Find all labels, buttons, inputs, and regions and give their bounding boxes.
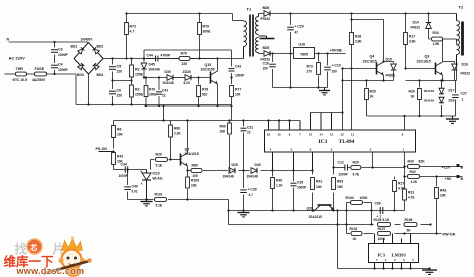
svg-text:4.7E: 4.7E — [353, 173, 360, 177]
regulator U16 7805 — [294, 43, 315, 59]
diode D16 — [452, 63, 471, 76]
junction dots mid bus — [162, 111, 343, 121]
wire Q3 base row — [406, 68, 436, 70]
svg-text:FR302: FR302 — [386, 74, 396, 78]
wire C5 C6 midpoint link — [113, 80, 132, 82]
label +12V feed — [442, 164, 464, 170]
svg-text:1K: 1K — [353, 237, 358, 241]
wire R63 column — [333, 152, 335, 211]
resistor R20 5.1E — [156, 153, 168, 168]
fuse FUSE — [32, 67, 47, 82]
wire Q15 collector — [217, 59, 219, 72]
wire pin12 rail — [342, 69, 344, 131]
svg-text:C42: C42 — [235, 65, 241, 69]
svg-text:10K: 10K — [337, 185, 344, 189]
junction dots AC column — [53, 41, 55, 75]
svg-text:PW-OK: PW-OK — [443, 233, 456, 237]
svg-text:1000P: 1000P — [235, 74, 245, 78]
junction dots bus2 — [336, 223, 431, 225]
svg-text:WL431: WL431 — [153, 177, 164, 181]
svg-text:A: A — [141, 182, 143, 186]
svg-text:1K: 1K — [370, 95, 375, 99]
diode D14 — [411, 21, 432, 30]
label AC 220V — [9, 56, 26, 61]
wire R40 column — [272, 171, 274, 211]
resistor R20 1K — [365, 89, 376, 100]
resistor R33 — [408, 160, 426, 169]
junction dots cluster bus — [145, 105, 219, 107]
diode BD4 — [93, 63, 104, 77]
junction dot bridge — [87, 103, 89, 105]
svg-text:R60: R60 — [174, 127, 180, 131]
svg-text:R40: R40 — [276, 179, 282, 183]
resistor R29 — [351, 161, 361, 177]
wire Q4 collector rail — [352, 20, 384, 62]
diode D15 — [386, 58, 397, 78]
svg-text:BD5: BD5 — [263, 46, 270, 50]
svg-text:PS-ON: PS-ON — [96, 147, 108, 151]
svg-text:1.1K: 1.1K — [276, 184, 283, 188]
svg-text:C27: C27 — [461, 92, 467, 96]
svg-text:C31: C31 — [247, 126, 253, 130]
wire E2 row — [406, 80, 457, 82]
wire D17 D18 column — [441, 81, 443, 117]
svg-text:R76: R76 — [203, 25, 210, 29]
svg-text:100: 100 — [263, 67, 269, 71]
svg-text:FR102: FR102 — [411, 26, 421, 30]
svg-text:R20: R20 — [370, 90, 376, 94]
svg-text:FR102: FR102 — [461, 72, 471, 76]
node N label — [7, 38, 10, 42]
wire HV bus — [113, 58, 244, 60]
label PS-ON — [96, 147, 114, 152]
resistor R1 — [130, 65, 144, 77]
svg-text:2SC1815: 2SC1815 — [363, 60, 377, 64]
wire PW bus2 — [229, 224, 431, 226]
transformer T1 secondary winding lower — [256, 38, 259, 54]
resistor R77 — [230, 86, 242, 97]
svg-text:R2: R2 — [135, 88, 140, 92]
junction dots D row — [228, 169, 294, 171]
svg-text:R90: R90 — [220, 125, 226, 129]
junction dots driver bottoms — [403, 67, 443, 117]
svg-text:C12: C12 — [338, 161, 344, 165]
svg-text:+12V: +12V — [442, 166, 451, 170]
IC3 bottom pin stubs — [375, 263, 411, 269]
svg-text:B: B — [461, 166, 464, 170]
svg-text:R30: R30 — [409, 90, 415, 94]
svg-text:3.9K: 3.9K — [355, 40, 362, 44]
wire M1 row — [367, 115, 456, 117]
svg-text:FUSE: FUSE — [35, 67, 45, 71]
wire bridge minus riser — [88, 74, 90, 105]
wire R20a row — [151, 160, 181, 170]
svg-text:Q20: Q20 — [307, 207, 314, 211]
wire Q4 emitter — [383, 75, 385, 81]
junction dot R60 base — [169, 158, 171, 160]
wire IC3 left loop — [337, 211, 339, 269]
svg-text:R42: R42 — [117, 155, 123, 159]
capacitor C60 electrolytic — [375, 202, 383, 219]
svg-text:C6: C6 — [117, 89, 122, 93]
wire D45 column — [143, 50, 145, 78]
resistor R6 — [112, 126, 124, 138]
resistor R75 — [197, 86, 209, 97]
junction dot emitter row — [186, 169, 188, 200]
capacitor C3 — [51, 48, 69, 58]
svg-text:Q15: Q15 — [205, 63, 212, 67]
svg-text:C5: C5 — [117, 65, 122, 69]
ground driver — [446, 116, 459, 123]
diode BD6 — [261, 6, 271, 21]
wire R1 R2 column — [131, 59, 133, 105]
svg-text:C40: C40 — [132, 185, 138, 189]
svg-text:R70: R70 — [149, 88, 155, 92]
comparator IC3 LM393 body — [369, 244, 419, 263]
wire C34 row — [114, 169, 147, 171]
wire bus link b — [231, 106, 233, 121]
svg-text:220: 220 — [182, 62, 188, 66]
svg-text:1N4148: 1N4148 — [247, 175, 258, 179]
capacitor C30 1000P — [291, 181, 308, 190]
svg-text:2SC1815: 2SC1815 — [417, 60, 431, 64]
wire Q7 collector — [187, 121, 189, 154]
junction dot PS-ON — [112, 150, 114, 152]
label +5V feed — [445, 175, 464, 181]
resistor R76 300E — [198, 23, 212, 35]
svg-text:D25: D25 — [232, 163, 238, 167]
svg-text:C44: C44 — [147, 54, 153, 58]
op-amp IC1 TL494 body — [265, 130, 416, 152]
wire C3 C4 column — [54, 42, 56, 74]
svg-text:+ C30: + C30 — [248, 188, 257, 192]
wire BD5 row — [259, 53, 294, 55]
resistor R60 — [169, 125, 182, 137]
svg-text:IC10: IC10 — [153, 172, 160, 176]
diode D30 — [163, 70, 174, 85]
resistor R80 — [191, 164, 202, 179]
svg-text:R29: R29 — [353, 161, 359, 165]
wire R34 to T2 — [443, 38, 457, 40]
ground IC3 — [422, 269, 437, 275]
resistor R70 — [144, 86, 156, 97]
wire primary ground bus — [76, 104, 232, 106]
diode BD2 — [93, 45, 104, 54]
wire R20b column — [366, 81, 368, 117]
svg-text:+ C19: + C19 — [332, 64, 341, 68]
wire D25 D40 row — [225, 170, 313, 172]
capacitor C31 — [241, 126, 254, 135]
svg-text:R63: R63 — [337, 180, 343, 184]
wire R41 column — [312, 171, 314, 211]
wire R72 column — [126, 14, 128, 59]
capacitor C44 — [147, 54, 172, 62]
wire mid control bus — [114, 120, 301, 122]
svg-text:R100: R100 — [191, 179, 199, 183]
svg-text:U16: U16 — [299, 43, 306, 47]
wire D15 column — [384, 62, 394, 81]
svg-text:1N4148: 1N4148 — [223, 175, 234, 179]
svg-text:R101: R101 — [155, 193, 163, 197]
wire C16 column — [272, 54, 274, 88]
svg-text:0.01: 0.01 — [132, 190, 138, 194]
bridge rectifier frame — [74, 43, 103, 75]
resistor R63 — [332, 178, 344, 190]
watermark url text — [16, 266, 85, 276]
svg-text:D18: D18 — [449, 99, 455, 103]
svg-text:R26: R26 — [355, 35, 361, 39]
svg-text:5.1E: 5.1E — [156, 164, 163, 168]
resistor R102 — [350, 227, 363, 241]
svg-text:N: N — [7, 38, 10, 42]
wire bus2 left riser — [228, 200, 230, 225]
svg-text:www.dzsc.com: www.dzsc.com — [16, 266, 85, 276]
transformer T2 label — [459, 5, 464, 10]
ground analog — [238, 211, 250, 217]
svg-text:IC1: IC1 — [319, 139, 328, 145]
svg-text:4.7E: 4.7E — [398, 187, 405, 191]
svg-text:D15: D15 — [386, 58, 392, 62]
svg-text:R41: R41 — [316, 180, 322, 184]
svg-text:R43: R43 — [440, 189, 446, 193]
wire R70 column — [145, 78, 147, 107]
svg-text:NTC 10-9: NTC 10-9 — [13, 78, 28, 82]
capacitor C40 — [124, 185, 138, 194]
svg-text:R76: R76 — [181, 52, 187, 56]
IC1 top pin stubs — [269, 113, 332, 131]
svg-text:5.1E: 5.1E — [156, 204, 163, 208]
wire R27 column — [394, 177, 396, 211]
wire R90 column — [229, 121, 231, 171]
junction dots 431 node — [126, 168, 147, 200]
svg-text:13: 13 — [330, 132, 334, 136]
wire C41 column — [158, 78, 160, 107]
resistor R41 — [311, 178, 323, 190]
thermistor THR — [13, 67, 28, 82]
wire C31 column — [243, 121, 245, 171]
svg-text:R17: R17 — [409, 35, 415, 39]
svg-text:11: 11 — [351, 132, 355, 136]
wire R73 column — [318, 54, 320, 88]
svg-text:+5V: +5V — [445, 177, 452, 181]
capacitor C42 — [229, 65, 246, 78]
svg-text:AC 220V: AC 220V — [9, 56, 26, 61]
shunt regulator IC10 WL431 — [141, 170, 164, 200]
wire E1 row — [343, 80, 394, 82]
wire C30a column — [243, 171, 245, 211]
svg-text:R103 5.1K: R103 5.1K — [374, 218, 390, 222]
diode D17 — [424, 88, 455, 94]
resistor R72 — [125, 23, 136, 35]
svg-text:62K: 62K — [419, 160, 426, 164]
resistor R101 — [155, 193, 167, 208]
svg-text:2SA1015: 2SA1015 — [309, 215, 323, 219]
svg-text:IC3: IC3 — [378, 253, 386, 258]
transformer T1 label — [247, 7, 252, 12]
watermark title text — [4, 254, 55, 269]
diode D45 — [141, 63, 160, 72]
svg-text:47: 47 — [295, 31, 299, 35]
svg-text:C30: C30 — [297, 181, 303, 185]
junction dots ic3 — [373, 267, 430, 269]
svg-text:R32: R32 — [410, 170, 416, 174]
ground TL431 — [141, 200, 153, 206]
svg-text:1K: 1K — [411, 95, 416, 99]
svg-text:K: K — [141, 170, 143, 174]
svg-text:FR152: FR152 — [261, 17, 271, 21]
transistor Q15 — [201, 63, 218, 84]
capacitor C19 electrolytic — [324, 64, 341, 74]
svg-text:+5VSB: +5VSB — [330, 49, 342, 53]
resistor R107 — [378, 227, 391, 241]
capacitor C12 — [338, 161, 349, 177]
wire Q3 emitter — [442, 75, 444, 81]
svg-text:1000P: 1000P — [58, 68, 69, 72]
junction dots top rail right — [350, 12, 429, 14]
IC1 top pin numbers — [267, 132, 404, 136]
wire R17 column — [405, 14, 407, 69]
junction dots comp — [332, 166, 373, 168]
svg-text:1N4007: 1N4007 — [81, 38, 93, 42]
diode BD3 — [77, 63, 84, 77]
junction dots pwok — [403, 232, 437, 234]
resistor R100 — [186, 177, 200, 188]
svg-text:4.2K: 4.2K — [411, 180, 418, 184]
svg-text:T1: T1 — [247, 7, 252, 12]
junction dots aux — [271, 12, 328, 88]
capacitor C6 — [109, 89, 122, 98]
svg-text:2SC3150: 2SC3150 — [201, 68, 215, 72]
svg-text:D40: D40 — [255, 163, 261, 167]
IC3 pin numbers — [376, 258, 414, 262]
wire AC left corner riser — [75, 74, 77, 105]
svg-text:3.9K: 3.9K — [409, 40, 416, 44]
svg-text:R72: R72 — [130, 25, 137, 29]
wire C29 column — [290, 14, 292, 88]
junction dots filter mid — [111, 79, 132, 105]
svg-text:220: 220 — [117, 70, 123, 74]
svg-text:R27: R27 — [398, 182, 404, 186]
svg-text:THR: THR — [16, 67, 24, 71]
junction dot r101 end — [227, 209, 229, 211]
svg-text:16: 16 — [267, 132, 271, 136]
capacitor C4 — [51, 63, 69, 73]
wire pin1 rail — [404, 152, 406, 211]
resistor R31 — [403, 189, 415, 200]
junction dots abus — [242, 209, 395, 211]
svg-text:1N4148: 1N4148 — [163, 81, 174, 85]
capacitor C16 — [263, 62, 276, 71]
transformer T2 core — [461, 22, 464, 56]
wire C30b column — [293, 171, 295, 211]
svg-text:1000P: 1000P — [58, 53, 69, 57]
resistor R32 — [408, 170, 420, 184]
diode BD5 — [261, 46, 271, 62]
capacitor C27 — [452, 92, 467, 102]
transformer T1 secondary winding upper — [256, 14, 259, 35]
svg-text:芯: 芯 — [30, 243, 38, 253]
svg-text:10E: 10E — [191, 184, 197, 188]
svg-text:Q7: Q7 — [185, 148, 190, 152]
transistor Q3 — [417, 55, 443, 76]
wire R60 column — [170, 121, 172, 160]
diode D40 — [247, 163, 261, 179]
svg-text:5K: 5K — [407, 229, 412, 233]
wire N line — [9, 41, 89, 43]
svg-text:C4: C4 — [58, 63, 63, 67]
svg-text:Q3: Q3 — [425, 55, 430, 59]
wire C40 column — [128, 170, 147, 200]
resistor R17 — [404, 33, 417, 45]
svg-text:200E: 200E — [149, 93, 156, 97]
svg-text:14: 14 — [319, 132, 323, 136]
svg-text:+ C29: + C29 — [295, 25, 304, 29]
svg-text:300E: 300E — [203, 30, 212, 34]
junction dots sense — [403, 165, 437, 177]
wire L line segment — [5, 73, 77, 75]
wire R43 column — [436, 177, 438, 234]
svg-text:R107: R107 — [378, 227, 386, 231]
capacitor C34 — [119, 163, 129, 179]
wire 7805 output — [315, 53, 346, 55]
svg-text:C16: C16 — [263, 62, 269, 66]
svg-text:R104: R104 — [346, 196, 354, 200]
wire R30 column — [419, 81, 421, 117]
resistor R43 — [435, 188, 447, 199]
svg-text:10K: 10K — [440, 194, 447, 198]
wire D14 to R34 — [429, 29, 431, 39]
svg-text:R106: R106 — [405, 218, 413, 222]
svg-text:16K: 16K — [220, 130, 227, 134]
svg-text:R6: R6 — [117, 128, 121, 132]
svg-text:2SA1015: 2SA1015 — [185, 152, 199, 156]
diode D18 — [424, 97, 455, 103]
svg-text:150E: 150E — [135, 73, 144, 77]
svg-text:LM393: LM393 — [392, 253, 407, 258]
wire zener row — [144, 77, 210, 79]
svg-text:R33: R33 — [408, 160, 414, 164]
resistor R26 — [350, 33, 363, 45]
svg-text:4.7: 4.7 — [130, 30, 135, 34]
resistor R73 — [307, 63, 321, 75]
diode D25 — [223, 163, 238, 179]
wire Q7 emitter R100 column — [187, 166, 189, 200]
svg-text:4.7: 4.7 — [249, 193, 254, 197]
svg-text:10: 10 — [277, 132, 281, 136]
svg-text:D45: D45 — [149, 63, 155, 67]
svg-text:22: 22 — [247, 131, 251, 135]
svg-text:1N4148: 1N4148 — [149, 68, 160, 72]
wire Q4 base row — [343, 68, 377, 70]
capacitor C30 4.7 electrolytic — [240, 188, 257, 198]
svg-text:TL494: TL494 — [339, 139, 355, 145]
svg-text:4A/250V: 4A/250V — [32, 78, 46, 82]
resistor R27 — [393, 181, 405, 192]
svg-text:BD2: BD2 — [97, 45, 104, 49]
svg-text:C41: C41 — [162, 89, 168, 93]
svg-text:BD3: BD3 — [77, 73, 84, 77]
svg-text:150E: 150E — [135, 93, 144, 97]
svg-text:2.2K: 2.2K — [174, 132, 181, 136]
junction dots Q4 area — [341, 18, 384, 81]
svg-text:100: 100 — [332, 70, 338, 74]
IC1 bottom pin numbers — [270, 147, 405, 151]
zener ZD20 — [183, 70, 192, 85]
wire C42 R77 column — [231, 50, 233, 106]
ground aux — [319, 88, 330, 95]
wire bus link a — [163, 106, 165, 121]
svg-text:220: 220 — [117, 94, 123, 98]
